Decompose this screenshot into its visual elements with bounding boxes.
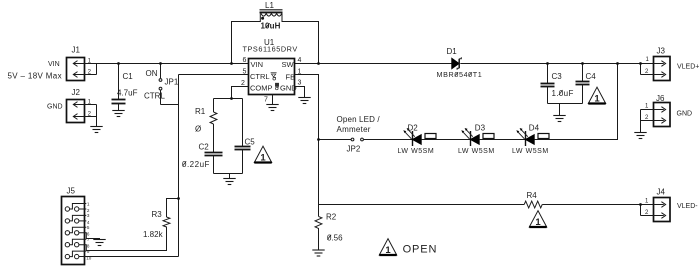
ground (pin 7) [266, 105, 278, 111]
J5 row 1 (pins 1,2) [65, 201, 90, 213]
svg-text:7: 7 [264, 97, 268, 104]
capacitor C3 [541, 62, 574, 103]
resistor R1 [195, 99, 217, 153]
svg-text:6: 6 [243, 57, 247, 64]
svg-text:ON: ON [146, 69, 158, 78]
svg-text:1: 1 [645, 104, 649, 110]
wire: main VIN rail from J1 to U1 VIN pin 6 [97, 63, 249, 65]
ground (pin 3) [298, 98, 310, 104]
svg-text:5V – 18V Max: 5V – 18V Max [8, 72, 62, 81]
legend: note triangle 1 = OPEN [379, 239, 396, 256]
ground (J5) [93, 240, 105, 246]
connector J6 [641, 94, 671, 133]
wire: pin 5 CTRL stub [179, 74, 249, 76]
svg-text:3: 3 [87, 213, 90, 218]
svg-text:2: 2 [87, 208, 90, 213]
connector J1 [67, 46, 97, 81]
svg-text:0.22uF: 0.22uF [182, 160, 210, 169]
svg-text:5: 5 [87, 225, 90, 230]
ground (J2) [90, 127, 102, 133]
svg-text:J2: J2 [72, 88, 81, 97]
svg-text:MBR0540T1: MBR0540T1 [437, 70, 483, 79]
note triangle (C4) [588, 87, 605, 104]
svg-text:LW W5SM: LW W5SM [398, 148, 435, 155]
wire: bottom rail to ground [229, 174, 231, 179]
wire: L1 left leg to VIN rail [232, 13, 261, 63]
wire: pin 2 COMP stub [232, 87, 249, 99]
wire: LED chain line [319, 139, 352, 141]
ground (C3/C4) [553, 116, 565, 122]
wire: D3 to D4 [479, 139, 525, 141]
LED D4 [512, 123, 549, 155]
wire: C3-C4 bottom rail [548, 103, 583, 105]
wire: comp network bottom rail [214, 173, 243, 175]
note triangle (R4) [529, 211, 546, 228]
svg-text:D4: D4 [529, 123, 540, 132]
svg-text:10uH: 10uH [261, 22, 281, 31]
J5 row 3 (pins 5,6) to ground [65, 225, 99, 239]
svg-text:0.56: 0.56 [327, 233, 343, 242]
diode D1 [437, 47, 483, 79]
LED D2 [398, 123, 437, 155]
svg-text:R1: R1 [195, 107, 206, 116]
wire: pin 3 GND stub to ground [295, 87, 305, 98]
capacitor C4 [576, 62, 597, 103]
svg-text:8: 8 [87, 244, 90, 249]
svg-text:C2: C2 [199, 142, 210, 151]
wire: R4 line from FB node to J4 [319, 204, 525, 206]
svg-text:L1: L1 [265, 1, 274, 10]
svg-text:J3: J3 [657, 47, 666, 56]
svg-text:R4: R4 [527, 191, 538, 200]
connector J4 [639, 188, 670, 222]
wire: rail to ground [559, 104, 561, 116]
svg-text:JP1: JP1 [165, 78, 179, 87]
resistor R3 [143, 197, 180, 239]
svg-text:3: 3 [298, 80, 302, 87]
svg-text:VIN: VIN [251, 60, 264, 69]
svg-text:GND: GND [280, 84, 297, 93]
connector J2 [67, 88, 97, 123]
LED D3 [458, 123, 495, 155]
svg-text:GND: GND [47, 104, 63, 111]
svg-text:2: 2 [241, 80, 245, 87]
svg-text:CTRL: CTRL [250, 72, 270, 81]
op-amp U1 TPS61165DRV [241, 38, 302, 104]
svg-text:1: 1 [646, 57, 650, 63]
capacitor C2 [182, 142, 223, 173]
ground (J6) [634, 133, 646, 139]
ground (C1) [112, 111, 124, 117]
svg-text:J5: J5 [67, 187, 76, 196]
svg-text:JP2: JP2 [347, 144, 361, 153]
svg-text:C3: C3 [552, 72, 563, 81]
svg-text:9: 9 [87, 249, 90, 254]
svg-text:COMP: COMP [250, 84, 273, 93]
ground (R2) [312, 250, 324, 256]
ground (comp network) [223, 179, 235, 185]
connector J5 [62, 187, 85, 265]
jumper JP2 [347, 138, 364, 153]
svg-text:4: 4 [87, 220, 90, 225]
svg-text:4.7uF: 4.7uF [117, 89, 138, 98]
svg-text:J1: J1 [72, 46, 81, 55]
svg-text:10: 10 [86, 256, 92, 261]
wire: CTRL vertical down to J5 [178, 75, 180, 257]
svg-text:C4: C4 [586, 72, 597, 81]
svg-text:OPEN: OPEN [403, 243, 438, 255]
svg-text:D1: D1 [447, 47, 458, 56]
svg-text:Open LED /: Open LED / [337, 115, 381, 124]
svg-text:GND: GND [677, 111, 693, 118]
wire: SW output rail from U1 pin 4 to D1 anode [295, 63, 453, 65]
svg-text:C1: C1 [123, 72, 134, 81]
svg-text:VLED-: VLED- [677, 203, 698, 210]
wire: R4 to J4 [542, 204, 653, 206]
svg-text:1: 1 [645, 199, 649, 205]
wire: J2 to ground [96, 117, 98, 127]
wire: D2 to D3 [421, 139, 470, 141]
wire: FB pin 1 stub [295, 75, 319, 217]
svg-text:R2: R2 [326, 213, 337, 222]
J5 row 2 (pins 3,4) [65, 213, 90, 225]
svg-text:D3: D3 [475, 123, 486, 132]
svg-text:R3: R3 [152, 210, 163, 219]
svg-text:Ammeter: Ammeter [337, 125, 371, 134]
svg-text:1.82k: 1.82k [143, 230, 164, 239]
svg-text:C5: C5 [245, 138, 256, 147]
svg-text:FB: FB [286, 73, 296, 82]
resistor R2 [315, 213, 343, 251]
wire: comp network top rail [214, 98, 243, 100]
svg-text:D2: D2 [408, 123, 419, 132]
svg-text:1: 1 [87, 201, 90, 206]
svg-text:SW: SW [282, 60, 295, 69]
J5 row 4 (pins 7,8) to R3 [65, 230, 166, 251]
wire: pin 7 to ground [272, 95, 274, 105]
wire: D4 to output rail riser [534, 64, 617, 140]
note triangle (C5) [254, 146, 271, 163]
svg-text:LW W5SM: LW W5SM [458, 148, 495, 155]
resistor R4 [524, 191, 542, 208]
capacitor C1 [112, 62, 138, 110]
svg-text:6: 6 [87, 232, 90, 237]
capacitor C5 [235, 99, 256, 174]
wire: L1 right leg to SW rail [282, 13, 319, 63]
svg-text:CTRL: CTRL [144, 92, 165, 101]
svg-text:TPS61165DRV: TPS61165DRV [243, 45, 298, 54]
svg-text:J6: J6 [656, 94, 665, 103]
wire: JP2 to D2 [364, 139, 413, 141]
svg-text:VIN: VIN [48, 61, 60, 68]
svg-text:Ø: Ø [195, 125, 201, 134]
J5 row 5 (pins 9,10) to CTRL [65, 249, 178, 261]
connector J3 [639, 47, 670, 81]
wire: output rail from D1 cathode to J3 [460, 63, 653, 65]
svg-text:VLED+: VLED+ [677, 63, 699, 70]
svg-text:7: 7 [87, 237, 90, 242]
svg-text:LW W5SM: LW W5SM [512, 148, 549, 155]
inductor L1 [260, 1, 283, 31]
svg-text:4: 4 [298, 57, 302, 64]
svg-text:J4: J4 [657, 188, 666, 197]
jumper JP1 [159, 62, 179, 104]
